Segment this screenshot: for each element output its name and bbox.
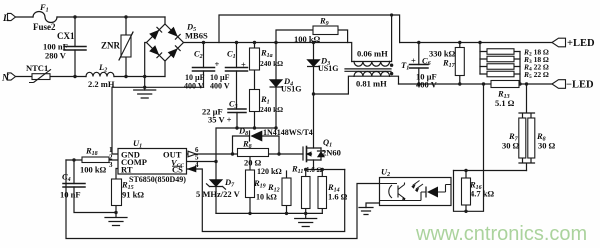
svg-text:ST6850(850D49): ST6850(850D49) bbox=[129, 175, 186, 184]
svg-text:C4: C4 bbox=[62, 172, 71, 184]
svg-text:10 nF: 10 nF bbox=[60, 190, 81, 200]
svg-text:R18: R18 bbox=[85, 146, 98, 158]
svg-text:CX1: CX1 bbox=[57, 31, 75, 41]
svg-text:5.1 Ω: 5.1 Ω bbox=[495, 98, 515, 108]
svg-text:ZNR: ZNR bbox=[101, 41, 121, 51]
svg-text:400 V: 400 V bbox=[416, 80, 438, 90]
svg-text:0.06 mH: 0.06 mH bbox=[357, 49, 388, 59]
svg-text:R17: R17 bbox=[442, 58, 456, 70]
svg-text:R1a: R1a bbox=[260, 48, 273, 60]
svg-text:C1: C1 bbox=[227, 49, 236, 61]
svg-text:120 kΩ: 120 kΩ bbox=[257, 167, 282, 176]
svg-text:R8: R8 bbox=[242, 139, 252, 151]
svg-text:US1G: US1G bbox=[318, 64, 338, 73]
svg-text:−LED: −LED bbox=[566, 80, 594, 91]
svg-text:D7: D7 bbox=[224, 177, 235, 189]
svg-text:US1G: US1G bbox=[281, 85, 301, 94]
svg-text:20 Ω: 20 Ω bbox=[244, 158, 262, 168]
svg-text:+: + bbox=[411, 56, 416, 66]
svg-text:R1: R1 bbox=[260, 94, 270, 106]
svg-text:100 kΩ: 100 kΩ bbox=[80, 165, 107, 175]
svg-text:5 MHz/22 V: 5 MHz/22 V bbox=[196, 189, 241, 199]
svg-text:10 kΩ: 10 kΩ bbox=[256, 193, 277, 202]
svg-text:+: + bbox=[215, 59, 220, 69]
svg-text:2N60: 2N60 bbox=[322, 148, 341, 158]
svg-text:3: 3 bbox=[109, 161, 113, 169]
svg-text:0.81 mH: 0.81 mH bbox=[356, 79, 387, 89]
svg-text:Fuse2: Fuse2 bbox=[33, 22, 56, 32]
svg-text:www.cntronics.com: www.cntronics.com bbox=[415, 223, 587, 245]
svg-text:1N4148WS/T4: 1N4148WS/T4 bbox=[263, 128, 313, 137]
svg-text:R5 22 Ω: R5 22 Ω bbox=[523, 70, 549, 80]
svg-text:4: 4 bbox=[195, 161, 199, 169]
svg-text:35 V +: 35 V + bbox=[208, 115, 232, 125]
svg-text:1.6 Ω: 1.6 Ω bbox=[306, 166, 323, 174]
svg-text:C2: C2 bbox=[194, 49, 203, 61]
svg-text:D8: D8 bbox=[238, 126, 248, 138]
svg-text:4.7 kΩ: 4.7 kΩ bbox=[470, 189, 494, 199]
svg-text:RT: RT bbox=[121, 165, 133, 175]
svg-text:280 V: 280 V bbox=[45, 51, 67, 61]
svg-text:240 kΩ: 240 kΩ bbox=[260, 59, 283, 68]
svg-text:240 kΩ: 240 kΩ bbox=[260, 105, 283, 114]
svg-text:L2: L2 bbox=[98, 62, 107, 74]
svg-text:30 Ω: 30 Ω bbox=[538, 141, 556, 151]
svg-text:30 Ω: 30 Ω bbox=[502, 141, 520, 151]
svg-text:100 kΩ: 100 kΩ bbox=[294, 34, 321, 44]
svg-text:MB6S: MB6S bbox=[185, 31, 208, 41]
svg-text:F1: F1 bbox=[39, 2, 49, 14]
svg-text:400 V: 400 V bbox=[210, 82, 230, 91]
svg-text:R9: R9 bbox=[319, 16, 329, 28]
svg-text:N: N bbox=[1, 74, 10, 84]
svg-text:91 kΩ: 91 kΩ bbox=[122, 190, 144, 200]
svg-text:R11: R11 bbox=[291, 164, 303, 176]
svg-text:R19: R19 bbox=[253, 178, 266, 190]
svg-text:2.2 mH: 2.2 mH bbox=[88, 79, 115, 89]
svg-text:400 V: 400 V bbox=[184, 82, 204, 91]
svg-text:L: L bbox=[2, 14, 9, 24]
svg-text:T1: T1 bbox=[401, 60, 409, 72]
svg-text:+: + bbox=[241, 60, 246, 70]
svg-text:U1: U1 bbox=[133, 138, 142, 150]
svg-text:1.6 Ω: 1.6 Ω bbox=[328, 192, 348, 202]
svg-text:NTC1: NTC1 bbox=[26, 63, 48, 73]
svg-text:U2: U2 bbox=[381, 167, 390, 179]
svg-text:+LED: +LED bbox=[567, 38, 595, 49]
